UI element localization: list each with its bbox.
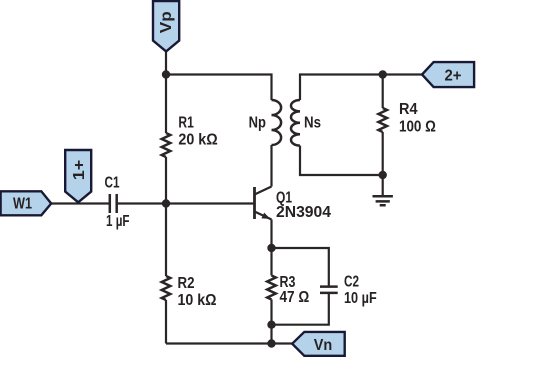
flag Vp (153, 1, 179, 51)
flag 1+ (65, 150, 91, 202)
wire W1 to C1 (51, 202, 110, 204)
node Vp junction (162, 70, 170, 78)
svg-text:Vp: Vp (158, 11, 175, 33)
svg-text:10 kΩ: 10 kΩ (178, 292, 217, 309)
svg-text:1 µF: 1 µF (106, 213, 130, 230)
wire Ns bottom (300, 146, 383, 175)
node R3/C2 junction (267, 321, 275, 329)
node 2+ junction (379, 70, 387, 78)
capacitor C1 plates (110, 194, 117, 213)
wire R2 branch lower (165, 300, 167, 344)
wire bottom rail to Vn (166, 342, 292, 344)
svg-text:47 Ω: 47 Ω (280, 289, 310, 306)
wire R3 lower lead (270, 300, 272, 325)
transistor Q1 (255, 187, 272, 220)
node bottom rail junction (267, 339, 275, 347)
flag 2+ (422, 62, 474, 87)
wire R2 branch upper (165, 204, 167, 277)
svg-text:C1: C1 (105, 175, 120, 192)
node base junction (162, 199, 170, 207)
wire ground stem (382, 175, 384, 196)
wire C1 to Q1 base (117, 202, 255, 204)
svg-text:20 kΩ: 20 kΩ (178, 132, 217, 149)
wire emitter node to C2 top (272, 248, 329, 287)
wire C2 bottom lead (272, 293, 329, 325)
svg-text:R2: R2 (178, 275, 195, 292)
wire R4 lower lead (382, 132, 384, 175)
svg-text:Ns: Ns (304, 115, 321, 132)
resistor R3 (267, 276, 276, 300)
svg-text:100 Ω: 100 Ω (399, 118, 436, 135)
ground (373, 196, 393, 205)
wire R1 branch lower to base node (165, 157, 167, 204)
wire Ns top lead to 2+ (300, 75, 422, 101)
wire Vp stem (165, 52, 167, 75)
resistor R2 (162, 276, 171, 300)
svg-text:1+: 1+ (71, 160, 88, 181)
wire R1 branch upper (165, 75, 167, 134)
svg-text:2N3904: 2N3904 (276, 204, 331, 221)
svg-text:2+: 2+ (445, 68, 462, 85)
wire R4 upper lead (382, 75, 384, 109)
svg-text:C2: C2 (344, 274, 359, 291)
svg-text:Np: Np (249, 115, 266, 132)
flag W1 (1, 191, 52, 215)
wire R3 upper lead (270, 248, 272, 276)
wire top rail Vp node to Np (166, 75, 272, 101)
flag Vn (292, 332, 345, 356)
svg-text:R1: R1 (178, 115, 193, 132)
svg-text:Vn: Vn (314, 337, 333, 354)
wire R3 node to bottom rail (270, 325, 272, 344)
capacitor C2 plates (320, 287, 338, 293)
resistor R1 (162, 133, 171, 157)
svg-text:W1: W1 (13, 195, 32, 212)
resistor R4 (378, 108, 387, 132)
node emitter junction (267, 244, 275, 252)
svg-text:R4: R4 (399, 101, 418, 118)
node ground junction (379, 171, 387, 179)
svg-text:10 µF: 10 µF (344, 290, 377, 307)
wire Np bottom to Q1 collector (270, 145, 272, 187)
inductor Np (272, 100, 282, 145)
inductor Ns (291, 100, 300, 146)
wire Q1 emitter to node (270, 220, 272, 249)
